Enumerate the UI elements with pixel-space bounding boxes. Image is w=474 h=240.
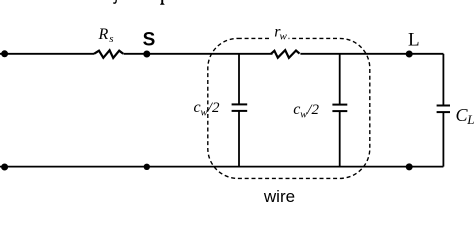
capacitor CL xyxy=(437,105,450,107)
white backing for r_w label xyxy=(271,26,289,40)
svg-text:w: w xyxy=(300,110,307,121)
svg-text:L: L xyxy=(408,29,420,50)
capacitor cw/2 left xyxy=(232,103,248,105)
node dot bottom-middle xyxy=(144,164,150,170)
node dot top-left xyxy=(1,50,8,57)
svg-text:/2: /2 xyxy=(207,100,220,116)
cropped text remnant (y descender) xyxy=(113,0,117,4)
svg-text:w: w xyxy=(280,30,288,42)
right capacitor branch wire xyxy=(339,54,341,105)
svg-text:L: L xyxy=(466,112,474,127)
resistor rw xyxy=(271,50,300,58)
svg-text:S: S xyxy=(143,29,156,50)
dashed box (wire model boundary) xyxy=(208,38,370,178)
svg-text:w: w xyxy=(201,108,208,119)
left capacitor branch wire xyxy=(238,54,240,105)
node dot bottom-left xyxy=(1,164,8,171)
node L dot xyxy=(406,51,413,58)
resistor Rs xyxy=(94,50,123,58)
svg-text:R: R xyxy=(98,26,109,43)
bottom wire xyxy=(0,166,443,168)
node dot bottom-right xyxy=(406,163,413,170)
capacitor cw/2 right xyxy=(332,104,347,106)
svg-text:wire: wire xyxy=(263,187,295,203)
node S dot xyxy=(143,51,150,58)
wire xyxy=(300,53,443,55)
right vertical wire xyxy=(442,54,444,106)
wire xyxy=(124,53,273,55)
svg-text:/2: /2 xyxy=(306,102,319,118)
svg-text:s: s xyxy=(109,33,113,45)
cropped text remnant (p stem) xyxy=(160,0,165,5)
top wire xyxy=(0,53,94,55)
